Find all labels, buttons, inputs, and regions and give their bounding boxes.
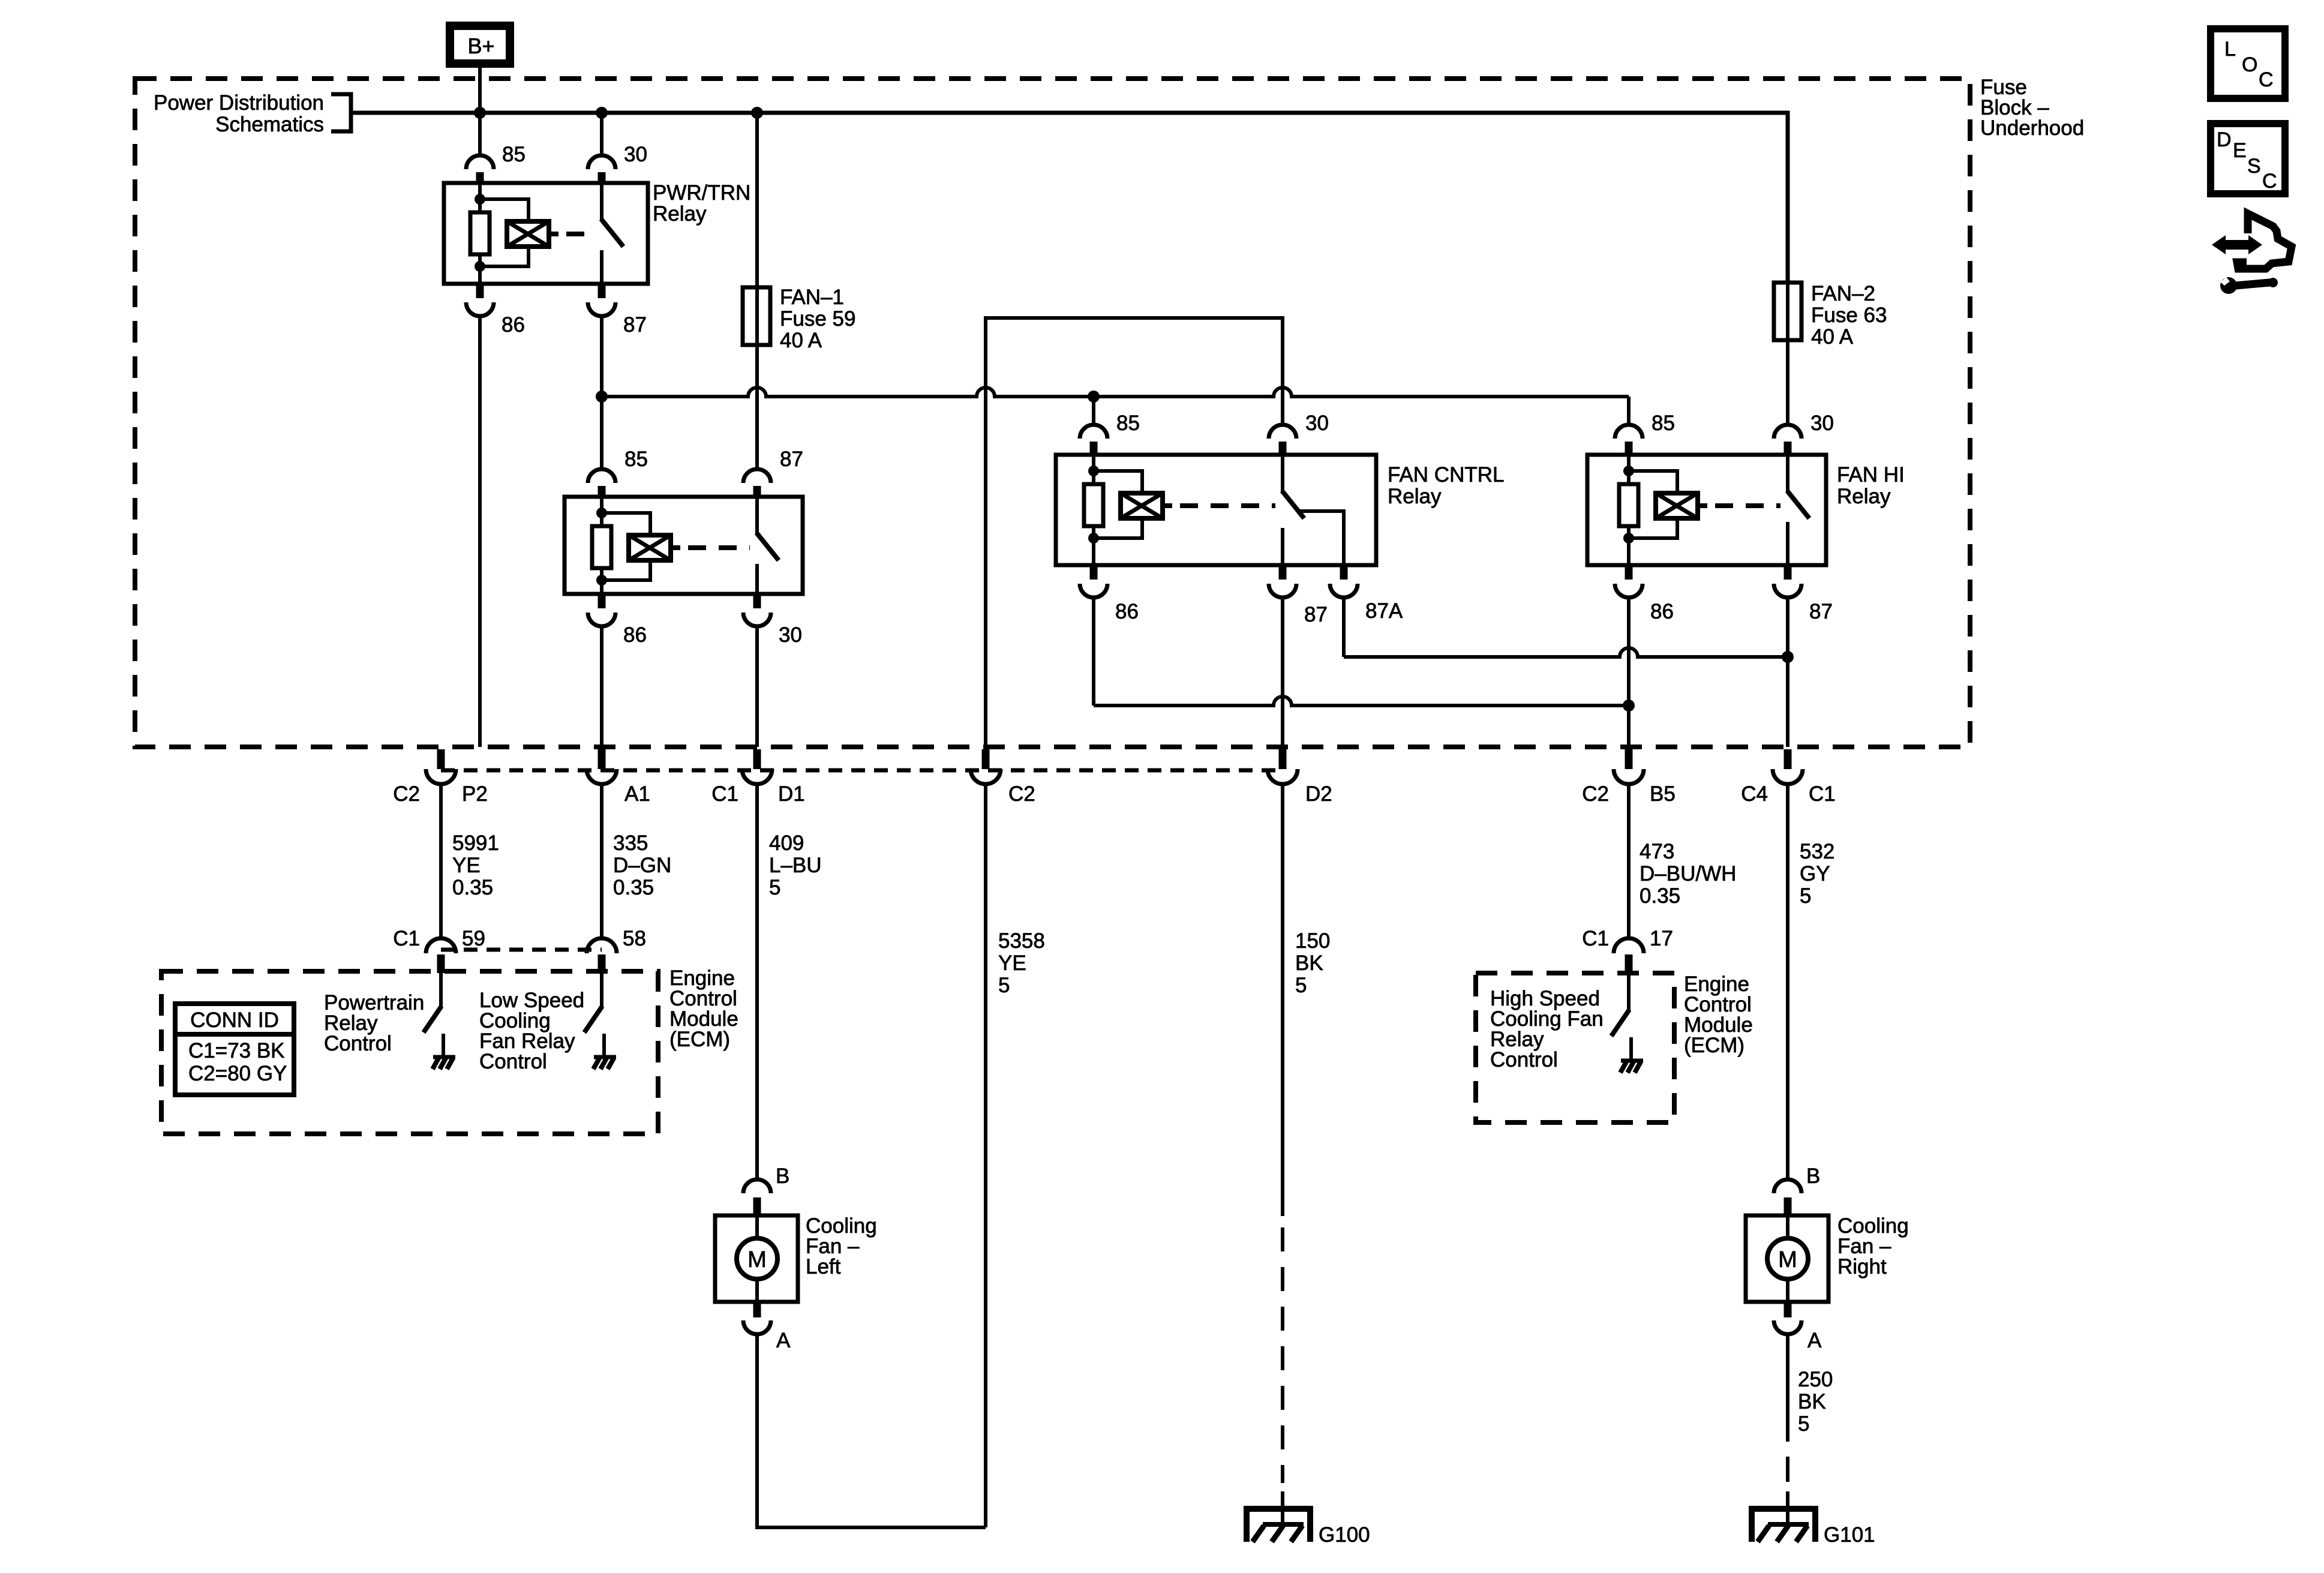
wire label 150 BK 5 [1295,929,1330,997]
svg-text:87: 87 [1809,600,1833,623]
connector cup low-speed relay pin 86 [588,613,615,626]
svg-text:Underhood: Underhood [1980,116,2084,140]
motor Cooling Fan Left [715,1215,798,1302]
svg-text:A: A [776,1329,791,1352]
svg-text:86: 86 [623,623,647,647]
connector C1/59 ECM entry [426,938,456,973]
svg-text:PWR/TRN: PWR/TRN [653,181,750,205]
label Power Distribution Schematics [154,91,324,136]
svg-text:P2: P2 [462,782,488,806]
svg-text:473: 473 [1640,840,1674,863]
svg-text:FAN–1: FAN–1 [780,286,844,309]
connector face line (dashed) across exit connectors [441,769,1283,773]
svg-text:G100: G100 [1319,1523,1370,1547]
pin stub 87 [598,284,606,298]
svg-text:D2: D2 [1305,782,1332,806]
wire low-speed 30 to connector D1 [755,626,759,747]
svg-text:Fuse 63: Fuse 63 [1811,304,1887,327]
svg-text:D: D [2217,128,2232,151]
label Powertrain Relay Control [324,991,424,1055]
pin stub 85 [1090,442,1098,455]
wire 473 D-BU/WH 0.35 (B5 to ECM 17) [1627,784,1631,938]
svg-text:0.35: 0.35 [1640,884,1680,908]
svg-text:532: 532 [1800,840,1834,863]
relay FAN CNTRL box [1056,455,1376,565]
svg-text:BK: BK [1295,951,1323,975]
svg-text:Relay: Relay [653,202,707,226]
svg-text:M: M [1778,1247,1797,1272]
svg-text:85: 85 [1652,412,1675,435]
svg-text:B5: B5 [1650,782,1676,806]
ground G101 [1752,1491,1815,1542]
wire 250 BK dashed section to G101 [1786,1457,1789,1482]
wire FAN-2 fuse to FAN HI pin 30 [1786,340,1789,424]
svg-text:86: 86 [502,313,525,337]
connector cup PWR/TRN pin 86 [466,302,494,316]
wire label 473 D-BU/WH 0.35 [1640,840,1736,908]
pin stub A [1784,1302,1792,1317]
connector cup low-speed relay pin 30 [743,613,771,626]
svg-text:250: 250 [1798,1368,1833,1391]
relay PWR/TRN internals (coil, resistor, switch) [470,183,623,284]
wire 5991 YE 0.35 (P2 to ECM 59) [439,784,443,938]
svg-text:86: 86 [1115,600,1139,623]
svg-text:M: M [747,1247,767,1272]
svg-text:5: 5 [1295,974,1307,997]
svg-text:0.35: 0.35 [452,876,493,899]
wire drop to FAN HI pin 85 [1627,397,1631,424]
wire label 532 GY 5 [1800,840,1834,908]
pin stub 30 [1784,442,1792,455]
svg-text:Power Distribution: Power Distribution [154,91,324,115]
label PWR/TRN Relay [653,181,750,226]
connector C1/17 ECM entry [1614,938,1644,975]
wire 250 BK 5 (right fan A to G101) [1786,1334,1789,1442]
svg-text:A: A [1807,1329,1822,1352]
wire bus to PWR/TRN pin 85 [478,113,482,155]
wire 150 BK 5 (D2 to G100) [1281,784,1284,1216]
wire FAN-1 fuse down to relay pin 87 (crosses node wire) [755,345,759,468]
svg-text:Right: Right [1837,1255,1887,1278]
svg-text:A1: A1 [624,782,650,806]
svg-text:C1: C1 [711,782,738,806]
svg-text:5991: 5991 [452,831,499,855]
wire label 335 D-GN 0.35 [613,831,671,899]
svg-text:409: 409 [769,831,804,855]
pin stub 87 [1784,565,1792,580]
svg-text:87: 87 [1304,603,1328,626]
svg-text:YE: YE [998,951,1026,975]
pin stub 86 [1090,565,1098,580]
svg-text:YE: YE [452,854,481,877]
wire PWR/TRN 87 down to low-speed relay pin 85 [600,397,603,469]
svg-text:Relay: Relay [1837,485,1891,508]
svg-text:87: 87 [780,448,803,471]
wire 150 BK dashed section to G100 [1281,1227,1284,1483]
svg-text:C: C [2262,170,2277,193]
junction node at B+ wire [474,107,486,119]
pin stub 30 [1279,442,1287,455]
connector cup FAN HI pin 87 [1774,584,1801,598]
pin stub B [1784,1197,1792,1216]
svg-text:C1: C1 [1809,782,1836,806]
connector 58 ECM entry [587,938,617,973]
label FAN-1 Fuse 59 40 A [780,286,855,352]
connector A1 exit [587,749,617,784]
wire label 250 BK 5 [1798,1368,1833,1436]
wire low-speed 86 to connector A1 [600,626,603,747]
ECM driver switch: high speed fan relay control, with ground [1611,975,1643,1073]
pin stub 86 [476,284,484,298]
pin stub 86 [598,594,606,608]
svg-text:40 A: 40 A [1811,325,1854,349]
junction FAN CNTRL 87A / FAN HI 87 wire [1782,651,1794,663]
svg-text:58: 58 [623,927,646,950]
wire 532 GY 5 (C1 to right fan B) [1786,784,1789,1179]
connector cap low-speed relay pin 87 [743,469,771,483]
label Low Speed Cooling Fan Relay Control [479,989,584,1073]
relay FAN CNTRL internals (coil, resistor, changeover switch) [1084,455,1344,565]
svg-text:C1: C1 [393,927,420,950]
connector C1/D1 exit [742,749,772,784]
wire label 5991 YE 0.35 [452,831,499,899]
svg-text:L–BU: L–BU [769,854,822,877]
connector cup FAN CNTRL pin 87 [1269,584,1296,598]
svg-text:30: 30 [1305,412,1329,435]
connector cap PWR/TRN pin 85 [466,155,494,169]
connector face line (dashed) at ECM pins 59/58 [441,948,602,952]
svg-text:B+: B+ [467,34,494,58]
wire PWR/TRN 87 down to node [600,316,603,397]
svg-text:(ECM): (ECM) [1684,1034,1744,1057]
svg-text:335: 335 [613,831,648,855]
wire FAN HI 87 down to connector C1 [1786,598,1789,747]
junction node at FAN-1 wire [751,107,763,119]
svg-text:G101: G101 [1824,1523,1875,1547]
label Engine Control Module (ECM) right [1684,972,1753,1057]
pin stub 85 [476,172,484,184]
connector cap FAN HI pin 85 [1615,425,1643,439]
svg-text:Left: Left [806,1255,841,1278]
pin stub B [753,1197,761,1216]
svg-text:Relay: Relay [1388,485,1442,508]
svg-text:Schematics: Schematics [215,113,324,136]
wire bus to FAN-1 fuse [755,113,759,287]
svg-text:BK: BK [1798,1390,1826,1413]
wire 409 L-BU 5 (D1 to left fan B) [755,784,759,1179]
svg-text:59: 59 [462,927,485,950]
svg-text:C2: C2 [1008,782,1035,806]
connector cap left fan pin B [743,1179,771,1193]
relay low-speed cooling fan box [565,497,803,594]
svg-text:30: 30 [779,623,802,647]
svg-text:B: B [776,1164,789,1188]
connector C4/C1 exit [1773,749,1803,784]
pin stub 87A [1340,565,1348,580]
svg-text:C2: C2 [393,782,420,806]
connector C2 exit (fan feed) [971,749,1001,784]
icon wrench [2220,277,2278,294]
icon component outline [2237,214,2292,269]
svg-text:GY: GY [1800,862,1830,885]
junction to FAN CNTRL pin 85 [1088,391,1100,403]
wire 335 D-GN 0.35 (A1 to ECM 58) [600,784,603,938]
wire node: PWR/TRN 87 feed across to FAN CNTRL 85 and FAN HI 85 (hops over crossing wires) [596,391,608,403]
relay FAN HI internals (coil, resistor, switch) [1619,455,1809,565]
svg-text:C1: C1 [1582,927,1609,950]
wire bus to PWR/TRN pin 30 [600,113,603,155]
svg-text:30: 30 [1810,412,1834,435]
svg-text:150: 150 [1295,929,1330,953]
svg-text:86: 86 [1650,600,1674,623]
pin stub 87 [1279,565,1287,580]
bus wire from schematics bracket to FAN-2 fuse [351,113,1788,283]
svg-text:C1=73 BK: C1=73 BK [188,1039,285,1062]
svg-text:5358: 5358 [998,929,1045,953]
connector cup FAN HI pin 86 [1615,584,1643,598]
label Engine Control Module (ECM) left [669,966,738,1051]
wire FAN CNTRL 87 down to connector D2 [1281,598,1284,747]
svg-text:FAN HI: FAN HI [1837,463,1905,487]
svg-text:5: 5 [1800,884,1811,908]
ground G100 [1247,1491,1310,1542]
icon DESC box [2211,124,2285,194]
svg-text:5: 5 [998,974,1010,997]
svg-text:C4: C4 [1741,782,1768,806]
wire FAN HI 86 down to connector B5 [1627,598,1631,747]
svg-text:Control: Control [324,1032,392,1055]
svg-text:E: E [2233,139,2247,162]
junction FAN CNTRL 86 / FAN HI 86 wire [1623,700,1635,712]
svg-text:5: 5 [1798,1412,1809,1436]
connector cap FAN CNTRL pin 85 [1080,425,1107,439]
pin stub 86 [1625,565,1633,580]
pin stub A [753,1302,761,1317]
icon LOC box [2211,29,2285,98]
wire left fan A loop to 5358 feed [757,1334,986,1527]
label FAN HI Relay [1837,463,1905,508]
svg-text:(ECM): (ECM) [669,1028,730,1051]
ECM driver switch: powertrain relay control, with ground [424,971,455,1069]
wire PWR/TRN 86 down to fuse block edge [478,316,482,747]
label High Speed Cooling Fan Relay Control [1490,987,1604,1071]
wire 5358 YE 5 (C2 down to left fan A loop) [984,784,987,1527]
junction node at pin 30 wire [596,107,608,119]
svg-text:17: 17 [1650,927,1673,950]
connector cap FAN HI pin 30 [1774,425,1801,439]
connector C2/P2 exit [426,749,456,784]
svg-text:FAN CNTRL: FAN CNTRL [1388,463,1504,487]
svg-text:Fuse 59: Fuse 59 [780,307,855,331]
svg-text:CONN ID: CONN ID [190,1008,279,1032]
svg-text:L: L [2224,38,2236,61]
wire label 409 L-BU 5 [769,831,822,899]
wire 5358 feed loop up and over to FAN CNTRL pin 30 [986,318,1283,747]
pin stub 87 [753,486,761,497]
svg-text:FAN–2: FAN–2 [1811,282,1875,305]
svg-text:B: B [1806,1164,1820,1188]
connector cup FAN CNTRL pin 87A [1330,584,1358,598]
relay FAN HI box [1587,455,1826,565]
svg-text:D–BU/WH: D–BU/WH [1640,862,1736,885]
pin stub 85 [598,486,606,497]
connector cap low-speed relay pin 85 [588,469,615,483]
svg-text:C2=80 GY: C2=80 GY [188,1062,287,1085]
connector cap right fan pin B [1774,1179,1801,1193]
svg-text:S: S [2247,155,2261,178]
svg-text:D1: D1 [778,782,805,806]
label FAN CNTRL Relay [1388,463,1504,508]
svg-text:0.35: 0.35 [613,876,654,899]
svg-text:Control: Control [479,1050,547,1073]
svg-text:D–GN: D–GN [613,854,671,877]
label Fuse Block - Underhood [1980,76,2084,140]
svg-text:5: 5 [769,876,780,899]
ECM module box left (dashed) [161,971,658,1134]
svg-text:C: C [2259,68,2274,91]
fuse FAN-1 (Fuse 59 40 A) [743,287,770,345]
ECM driver switch: low speed fan relay control, with ground [584,971,616,1069]
svg-text:87A: 87A [1365,599,1403,623]
connector D2 exit [1268,749,1298,784]
svg-text:C2: C2 [1582,782,1609,806]
svg-text:O: O [2242,53,2257,76]
label Cooling Fan - Left [806,1214,877,1278]
wire label 5358 YE 5 [998,929,1045,997]
svg-text:40 A: 40 A [780,329,822,352]
connector cup FAN CNTRL pin 86 [1080,584,1107,598]
connector C2/B5 exit [1614,749,1644,784]
connector cap PWR/TRN pin 30 [588,155,615,169]
relay low-speed internals (coil, resistor, switch) [592,497,779,594]
svg-text:85: 85 [502,143,526,166]
connector cup PWR/TRN pin 87 [588,302,615,316]
wire FAN CNTRL 87A across to FAN HI 87 wire (hop over 86 wire) [1342,598,1346,657]
connector cup right fan pin A [1774,1320,1801,1334]
motor Cooling Fan Right [1746,1215,1828,1302]
pin stub 85 [1625,442,1633,455]
wire drop to FAN CNTRL pin 85 [1092,397,1095,424]
connector cap FAN CNTRL pin 30 [1269,425,1296,439]
svg-text:85: 85 [1116,412,1140,435]
label Cooling Fan - Right [1837,1214,1909,1278]
wire FAN CNTRL 86 across to FAN HI 86 (hop over 87 wire) [1092,598,1095,706]
CONN ID table [175,1004,294,1095]
bracket for Power Distribution Schematics [331,94,351,131]
fuse FAN-2 (Fuse 63 40 A) [1774,283,1801,340]
svg-text:30: 30 [624,143,647,166]
label FAN-2 Fuse 63 40 A [1811,282,1887,349]
pin stub 30 [753,594,761,608]
wire B+ down to bus [478,68,482,113]
svg-text:85: 85 [624,448,648,471]
power terminal B+ [446,22,514,68]
pin stub 30 [598,172,606,184]
icon adjust arrow [2212,235,2262,254]
ECM module box right (dashed) [1476,973,1674,1122]
svg-text:87: 87 [623,313,647,337]
relay PWR/TRN box [444,183,648,284]
svg-text:Control: Control [1490,1048,1558,1071]
fuse block border (dashed) [135,79,1970,747]
connector cup left fan pin A [743,1320,771,1334]
